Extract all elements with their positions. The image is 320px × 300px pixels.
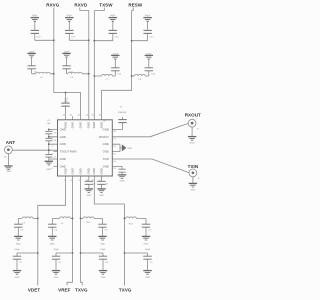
svg-text:C4: C4	[47, 120, 51, 122]
svg-text:J1: J1	[196, 128, 199, 130]
svg-text:100pF: 100pF	[53, 249, 59, 251]
svg-text:GND: GND	[63, 122, 67, 128]
svg-text:1pF: 1pF	[47, 123, 51, 125]
svg-text:C7: C7	[53, 156, 57, 158]
svg-text:GND: GND	[15, 277, 20, 279]
svg-text:L5: L5	[40, 77, 43, 79]
svg-text:C6: C6	[105, 230, 109, 232]
svg-text:C6: C6	[53, 140, 57, 142]
svg-text:GND: GND	[103, 127, 109, 131]
svg-text:100pF: 100pF	[146, 54, 152, 56]
svg-text:GND: GND	[92, 168, 96, 174]
svg-text:C9: C9	[150, 262, 154, 264]
svg-text:C11: C11	[118, 73, 123, 75]
svg-text:GND: GND	[78, 122, 82, 128]
svg-text:C1: C1	[19, 262, 23, 264]
svg-text:RXVD: RXVD	[74, 3, 87, 8]
svg-text:RXVG: RXVG	[46, 3, 59, 8]
svg-text:QM4003: QM4003	[118, 112, 127, 114]
svg-text:3: 3	[52, 146, 54, 148]
svg-text:GND: GND	[120, 181, 125, 183]
svg-text:GND: GND	[6, 171, 11, 173]
svg-text:C14: C14	[71, 36, 76, 38]
svg-text:VREF: VREF	[58, 288, 70, 293]
svg-text:TXIN: TXIN	[103, 157, 109, 161]
svg-text:L8: L8	[139, 79, 142, 81]
svg-text:GND: GND	[60, 142, 66, 146]
svg-text:GND: GND	[50, 244, 55, 246]
svg-text:ANT: ANT	[6, 140, 16, 145]
svg-text:GND: GND	[70, 122, 74, 128]
svg-text:100pF: 100pF	[113, 54, 119, 56]
svg-text:VDET: VDET	[28, 288, 40, 293]
svg-text:GND: GND	[16, 244, 21, 246]
svg-text:100pF: 100pF	[64, 52, 70, 54]
svg-text:GND: GND	[70, 168, 74, 174]
svg-text:GND: GND	[190, 190, 195, 192]
svg-text:GND: GND	[63, 168, 67, 174]
svg-text:C2: C2	[20, 230, 24, 232]
svg-text:L7: L7	[106, 79, 109, 81]
svg-text:GND: GND	[144, 244, 149, 246]
svg-text:C3: C3	[54, 230, 58, 232]
svg-text:RXOUT: RXOUT	[99, 135, 109, 139]
svg-text:GND: GND	[60, 135, 66, 139]
svg-text:14: 14	[113, 161, 116, 163]
svg-text:1pF: 1pF	[64, 101, 68, 103]
svg-text:GND: GND	[60, 157, 66, 161]
svg-text:C3: C3	[58, 262, 62, 264]
svg-text:C7: C7	[148, 230, 152, 232]
svg-text:GND: GND	[99, 122, 103, 128]
svg-text:J3: J3	[4, 156, 7, 158]
svg-text:GND: GND	[86, 195, 91, 197]
svg-text:L3: L3	[61, 223, 64, 225]
svg-text:R12: R12	[129, 224, 134, 226]
svg-text:GND: GND	[92, 122, 96, 128]
svg-text:TXVG: TXVG	[119, 288, 132, 293]
svg-text:4: 4	[52, 153, 54, 155]
svg-text:GND: GND	[99, 195, 104, 197]
svg-text:6: 6	[52, 168, 54, 170]
svg-text:C15: C15	[115, 36, 120, 38]
svg-text:GND: GND	[127, 148, 132, 150]
svg-text:GND: GND	[103, 164, 109, 168]
svg-text:GND: GND	[54, 277, 59, 279]
svg-text:5: 5	[52, 161, 54, 163]
svg-text:GND: GND	[78, 168, 82, 174]
svg-text:GND: GND	[103, 142, 109, 146]
svg-text:T1: T1	[120, 106, 123, 108]
svg-text:GND: GND	[101, 277, 106, 279]
svg-text:16: 16	[113, 146, 116, 148]
svg-text:GND: GND	[190, 143, 195, 145]
svg-text:C17: C17	[150, 36, 155, 38]
svg-text:23: 23	[69, 114, 72, 116]
svg-text:RXOUT: RXOUT	[185, 112, 201, 117]
svg-text:TXVG: TXVG	[75, 288, 88, 293]
svg-text:C13: C13	[36, 36, 41, 38]
svg-text:100pF: 100pF	[100, 249, 106, 251]
svg-text:100pF: 100pF	[29, 52, 35, 54]
svg-text:L6: L6	[71, 77, 74, 79]
svg-text:J2: J2	[197, 178, 200, 180]
svg-text:C5: C5	[53, 133, 57, 135]
svg-text:C8: C8	[93, 183, 97, 185]
svg-text:GND: GND	[100, 244, 105, 246]
svg-text:17: 17	[113, 139, 116, 141]
svg-text:15: 15	[113, 153, 116, 155]
svg-text:18: 18	[113, 131, 116, 133]
svg-text:R11: R11	[87, 222, 92, 224]
svg-text:TXOUT RXIN: TXOUT RXIN	[60, 150, 77, 154]
svg-text:GND: GND	[87, 168, 91, 174]
svg-text:GND: GND	[99, 168, 103, 174]
svg-text:GND: GND	[145, 277, 150, 279]
svg-text:C16: C16	[151, 73, 156, 75]
svg-text:TXSW: TXSW	[99, 3, 113, 8]
svg-text:GND: GND	[103, 150, 109, 154]
svg-text:GND: GND	[87, 122, 91, 128]
svg-text:GND: GND	[60, 164, 66, 168]
svg-text:L2: L2	[23, 222, 26, 224]
svg-text:100pF: 100pF	[14, 249, 20, 251]
svg-text:C9: C9	[105, 183, 109, 185]
svg-text:13: 13	[113, 168, 116, 170]
svg-text:TXIN: TXIN	[188, 164, 199, 169]
svg-text:C8: C8	[105, 262, 109, 264]
svg-text:100pF: 100pF	[145, 249, 151, 251]
svg-text:RESW: RESW	[128, 3, 142, 8]
